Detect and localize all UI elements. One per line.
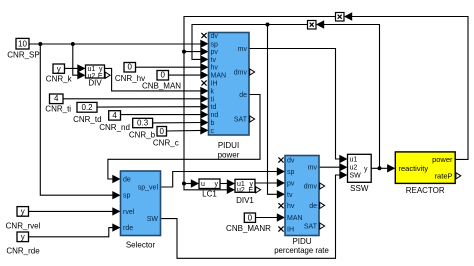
wire CNR_SP to Selector sp bbox=[40, 44, 114, 195]
wire Selector sp_vel to PIDU sp bbox=[161, 172, 280, 188]
svg-text:de: de bbox=[123, 177, 131, 184]
reactor block REACTOR bbox=[395, 152, 455, 184]
svg-text:MAN: MAN bbox=[211, 73, 227, 80]
svg-text:4: 4 bbox=[112, 111, 117, 120]
svg-text:hv: hv bbox=[211, 65, 219, 72]
limiter block LC1 bbox=[199, 179, 220, 189]
wire PIDU mv to SSW u2 bbox=[319, 166, 342, 168]
svg-text:CNR_c: CNR_c bbox=[153, 139, 179, 148]
svg-text:CNR_hv: CNR_hv bbox=[115, 74, 145, 83]
constant block CNR_hv value 0 bbox=[124, 63, 136, 73]
svg-text:SAT: SAT bbox=[234, 117, 248, 124]
svg-text:CNR_rde: CNR_rde bbox=[6, 247, 40, 256]
svg-text:MAN: MAN bbox=[287, 215, 303, 222]
wire pv trunk to PIDUI pv port bbox=[184, 51, 203, 53]
svg-text:tv: tv bbox=[287, 192, 293, 199]
wire CNR_c to PIDUI c bbox=[167, 129, 203, 132]
divider block DIV1 bbox=[235, 179, 255, 192]
wire arrow into PIDUI nd bbox=[200, 110, 208, 118]
svg-text:Selector: Selector bbox=[126, 241, 156, 250]
wire arrow into PIDUI k bbox=[200, 87, 208, 95]
svg-text:4: 4 bbox=[54, 94, 59, 103]
svg-text:rateP: rateP bbox=[435, 171, 453, 180]
wire arrow into DIV u2 bbox=[77, 71, 85, 79]
svg-text:pv: pv bbox=[287, 181, 295, 188]
svg-text:u: u bbox=[201, 181, 205, 188]
divider block DIV bbox=[86, 65, 105, 78]
svg-text:SAT: SAT bbox=[304, 224, 318, 231]
wire arrow into REACTOR reactivity bbox=[387, 164, 395, 172]
svg-text:pv: pv bbox=[211, 49, 219, 56]
constant block CNR_k value y bbox=[53, 64, 65, 73]
svg-text:y: y bbox=[215, 181, 219, 188]
wire arrow into PIDUI ti bbox=[200, 95, 208, 103]
constant block CNR_c value 0 bbox=[157, 127, 167, 137]
wire arrow into reactivity goto tag (flipped) bbox=[316, 20, 324, 28]
svg-text:CNR_td: CNR_td bbox=[73, 115, 101, 124]
svg-text:percentage rate: percentage rate bbox=[274, 246, 329, 255]
svg-text:0: 0 bbox=[127, 63, 132, 72]
constant block CNB_MAN value 0 bbox=[157, 71, 169, 81]
wire arrow into PIDUI sp bbox=[200, 40, 208, 48]
wire DIV y to PIDUI k bbox=[105, 68, 203, 91]
goto tag block x reactivity feedback bbox=[308, 21, 317, 30]
svg-text:dmv: dmv bbox=[234, 70, 248, 77]
svg-text:DIV1: DIV1 bbox=[236, 196, 254, 205]
svg-text:SW: SW bbox=[147, 216, 159, 223]
wire power feedback from REACTOR power to pv nets bbox=[352, 17, 468, 160]
wire CNR_td to PIDUI td bbox=[97, 106, 203, 108]
wire arrow into PIDU sp bbox=[277, 167, 285, 175]
wire arrow into PIDUI b bbox=[200, 118, 208, 126]
wire CNR_rvel to Selector rvel bbox=[29, 210, 115, 212]
wire pv trunk to DIV1 u2 bbox=[184, 184, 229, 190]
unconnected input marker PIDUI IH bbox=[201, 80, 206, 85]
wire pv trunk to LC1 input bbox=[184, 183, 193, 185]
constant block CNR_SP value 10 bbox=[16, 38, 29, 49]
svg-text:ti: ti bbox=[211, 96, 215, 103]
svg-text:CNR_b: CNR_b bbox=[129, 131, 156, 140]
constant block CNR_nd value 4 bbox=[109, 111, 121, 120]
wire arrow into PIDUI hv bbox=[200, 63, 208, 71]
wire reactivity feedback to PIDUI tv bbox=[192, 25, 308, 60]
wire LC1 y to DIV1 u1 bbox=[220, 183, 229, 185]
wire arrow into SSW u1 bbox=[339, 155, 347, 163]
wire CNR_k to DIV u1 bbox=[65, 67, 81, 69]
svg-text:SW: SW bbox=[350, 173, 362, 180]
unconnected output marker PIDU SAT bbox=[320, 223, 325, 229]
svg-text:sp: sp bbox=[211, 41, 219, 48]
svg-text:rde: rde bbox=[123, 225, 133, 232]
wire DIV1 y to PIDU pv bbox=[255, 182, 279, 184]
unconnected output marker PIDUI SAT bbox=[250, 116, 255, 122]
svg-text:de: de bbox=[239, 92, 247, 99]
svg-text:LC1: LC1 bbox=[202, 190, 217, 199]
wire Selector SW to SSW SW bbox=[161, 175, 342, 258]
svg-text:power: power bbox=[432, 155, 453, 164]
unconnected output marker PIDU de bbox=[320, 202, 325, 208]
node junction pv trunk to PIDUI pv bbox=[182, 50, 186, 54]
svg-text:CNB_MANR: CNB_MANR bbox=[226, 224, 271, 233]
wire arrow into Selector sp bbox=[112, 191, 120, 199]
svg-text:dv: dv bbox=[211, 33, 219, 40]
wire CNB_MANR to PIDU MAN bbox=[256, 217, 280, 219]
constant block CNR_rde value y bbox=[17, 232, 29, 242]
wire tv net to PIDU percentage-rate tv port bbox=[268, 25, 280, 195]
wire CNR_SP to DIV u2 bbox=[73, 44, 80, 75]
wire arrow into Selector rde bbox=[112, 223, 120, 231]
unconnected output marker PIDU dmv bbox=[320, 183, 325, 189]
svg-text:td: td bbox=[211, 104, 217, 111]
goto tag block x power feedback bbox=[336, 13, 345, 22]
wire CNR_b to PIDUI b bbox=[153, 122, 203, 124]
wire arrow into Selector rvel bbox=[112, 207, 120, 215]
wire arrow into PIDUI c bbox=[200, 126, 208, 134]
wire arrow into PIDUI tv bbox=[200, 55, 208, 63]
unconnected input marker PIDUI dv bbox=[201, 33, 206, 38]
svg-text:u2: u2 bbox=[350, 165, 358, 172]
node junction CNR_SP/DIV branch bbox=[71, 42, 75, 46]
node junction reactivity feedback tap bbox=[378, 166, 382, 170]
svg-text:reactivity: reactivity bbox=[399, 164, 429, 173]
wire arrow into DIV u1 bbox=[77, 64, 85, 72]
svg-text:PIDU: PIDU bbox=[292, 237, 311, 246]
unconnected output marker REACTOR rateP bbox=[456, 173, 461, 179]
wire PIDUI de to Selector de bbox=[108, 95, 260, 180]
svg-text:u2: u2 bbox=[237, 187, 245, 194]
unconnected input marker PIDU IH bbox=[278, 226, 283, 231]
svg-text:rvel: rvel bbox=[123, 209, 135, 216]
wire arrow into PIDU tv bbox=[277, 190, 285, 198]
wire PIDUI mv to SSW u1 bbox=[249, 49, 342, 160]
svg-text:y: y bbox=[21, 207, 25, 216]
wire CNR_nd to PIDUI nd bbox=[121, 114, 203, 116]
svg-text:CNR_nd: CNR_nd bbox=[99, 123, 130, 132]
wire arrow into power goto tag (flipped) bbox=[344, 12, 352, 20]
svg-text:c: c bbox=[211, 128, 215, 135]
svg-text:y: y bbox=[364, 166, 368, 173]
svg-text:10: 10 bbox=[18, 40, 27, 49]
svg-text:dmv: dmv bbox=[304, 184, 318, 191]
svg-text:y: y bbox=[21, 233, 25, 242]
node junction tv net to PIDU tv bbox=[266, 23, 270, 27]
svg-text:PIDUI: PIDUI bbox=[218, 141, 239, 150]
wire CNR_rde to Selector rde bbox=[29, 228, 115, 237]
svg-text:mv: mv bbox=[238, 46, 248, 53]
unconnected input marker PIDU hv bbox=[278, 203, 283, 208]
svg-text:CNR_SP: CNR_SP bbox=[7, 51, 39, 60]
svg-text:y: y bbox=[57, 64, 61, 73]
svg-text:CNB_MAN: CNB_MAN bbox=[142, 82, 181, 91]
wire arrow into PIDUI MAN bbox=[200, 71, 208, 79]
svg-text:b: b bbox=[211, 120, 215, 127]
wire arrow into LC1 u bbox=[191, 179, 199, 187]
subsystem block PIDU percentage rate bbox=[285, 156, 319, 236]
svg-text:sp: sp bbox=[287, 169, 295, 176]
svg-text:0.3: 0.3 bbox=[137, 119, 149, 128]
svg-text:SSW: SSW bbox=[350, 184, 369, 193]
svg-text:u1: u1 bbox=[350, 157, 358, 164]
svg-text:CNR_k: CNR_k bbox=[46, 75, 73, 84]
node junction CNR_SP/selector branch bbox=[38, 42, 42, 46]
svg-text:dv: dv bbox=[287, 158, 295, 165]
svg-text:power: power bbox=[218, 151, 240, 160]
unconnected output marker PIDUI dmv bbox=[250, 69, 255, 75]
wire arrow into PIDUI pv bbox=[200, 47, 208, 55]
constant block CNB_MANR value 0 bbox=[244, 213, 255, 222]
wire arrow into DIV1 u1 bbox=[227, 179, 235, 187]
wire arrow into PIDUI td bbox=[200, 103, 208, 111]
svg-text:nd: nd bbox=[211, 112, 219, 119]
svg-text:E: E bbox=[248, 187, 253, 194]
switch block SSW bbox=[348, 154, 372, 182]
svg-text:IH: IH bbox=[287, 227, 294, 234]
unconnected output marker DIV1 E bbox=[256, 187, 261, 193]
svg-text:CNR_ti: CNR_ti bbox=[45, 105, 71, 114]
svg-text:tv: tv bbox=[211, 57, 217, 64]
svg-text:0: 0 bbox=[159, 127, 164, 136]
svg-text:IH: IH bbox=[211, 81, 218, 88]
svg-text:CNR_rvel: CNR_rvel bbox=[6, 222, 41, 231]
wire CNB_MAN to PIDUI MAN bbox=[169, 74, 203, 76]
svg-text:DIV: DIV bbox=[88, 79, 102, 88]
constant block CNR_rvel value y bbox=[17, 207, 29, 217]
wire arrow into DIV1 u2 bbox=[227, 186, 235, 194]
wire power feedback left segment to vertical trunk bbox=[184, 17, 336, 184]
wire CNR_SP setpoint net bbox=[29, 43, 203, 45]
unconnected input marker PIDU dv bbox=[278, 157, 283, 162]
svg-text:REACTOR: REACTOR bbox=[406, 186, 445, 195]
svg-text:mv: mv bbox=[308, 165, 318, 172]
wire arrow into PIDU MAN bbox=[277, 213, 285, 221]
node junction pv trunk to LC1/DIV1 bbox=[182, 182, 186, 186]
wire CNR_hv to PIDUI hv bbox=[136, 66, 203, 68]
constant block CNR_ti value 4 bbox=[50, 94, 64, 104]
constant block CNR_td value 0.2 bbox=[77, 102, 97, 112]
wire arrow into Selector de bbox=[112, 175, 120, 183]
constant block CNR_b value 0.3 bbox=[133, 118, 153, 127]
svg-text:sp: sp bbox=[123, 193, 131, 200]
subsystem block PIDUI power bbox=[209, 33, 250, 136]
wire reactivity feedback riser bbox=[324, 25, 380, 169]
wire CNR_ti to PIDUI ti bbox=[63, 98, 203, 100]
wire arrow into SSW u2 bbox=[339, 163, 347, 171]
wire arrow into PIDU pv bbox=[277, 179, 285, 187]
svg-text:k: k bbox=[211, 88, 215, 95]
unconnected output marker DIV E bbox=[105, 72, 110, 78]
svg-text:0: 0 bbox=[248, 213, 253, 222]
subsystem block Selector bbox=[121, 171, 161, 236]
svg-text:0: 0 bbox=[160, 71, 165, 80]
svg-text:hv: hv bbox=[287, 203, 295, 210]
wire SSW y to REACTOR reactivity bbox=[371, 167, 389, 169]
svg-text:0.2: 0.2 bbox=[81, 103, 93, 112]
svg-text:sp_vel: sp_vel bbox=[138, 185, 159, 192]
wire arrow into SSW SW bbox=[339, 171, 347, 179]
svg-text:de: de bbox=[309, 203, 317, 210]
